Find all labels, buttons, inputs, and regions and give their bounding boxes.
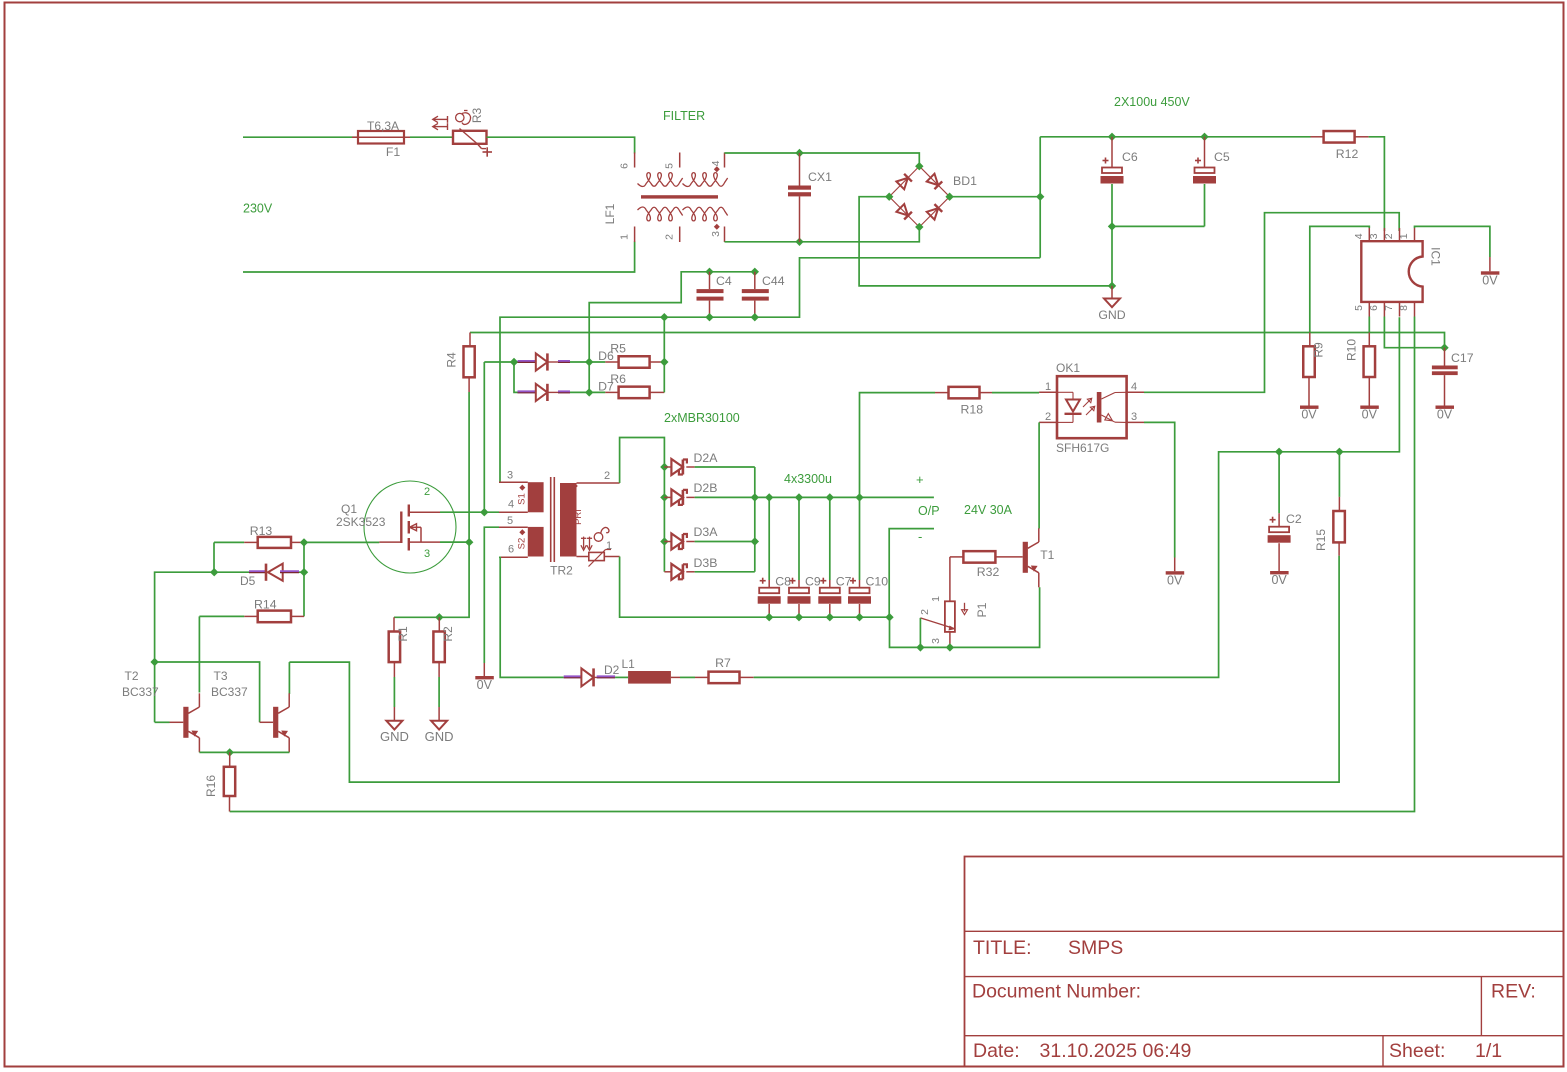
- resistor R15: [1314, 448, 1345, 556]
- capacitor C7: [818, 493, 851, 621]
- transistor T3 BC337: [211, 662, 289, 752]
- wire OK1 pin 3 to 0V: [1144, 422, 1175, 557]
- net label plus: [916, 472, 924, 487]
- capacitor C5: [1193, 133, 1230, 227]
- svg-text:R16: R16: [204, 775, 218, 797]
- wire T2 T3 emitters to R16: [199, 748, 289, 756]
- wire BD1 minus rail down to C4 C44 bottom rail: [500, 258, 1040, 482]
- wire D6 D7 anode net from drain node: [484, 362, 514, 512]
- svg-text:6: 6: [508, 544, 514, 556]
- wire BD1 plus to top DC rail: [950, 137, 1045, 258]
- svg-text:D5: D5: [240, 574, 256, 588]
- wire R14 left to T2 collector: [198, 616, 200, 692]
- resistor R4: [445, 333, 475, 393]
- resistor R9: [1300, 333, 1326, 422]
- svg-text:R1: R1: [396, 626, 410, 642]
- wire OK1 pin 2 to T1 collector: [1038, 422, 1040, 528]
- wire LF1 pin 4 to CX1 top and BD1 top: [725, 153, 920, 166]
- svg-text:3: 3: [1368, 233, 1380, 239]
- output minus stub wire: [889, 529, 934, 618]
- svg-text:T2: T2: [125, 669, 139, 683]
- svg-text:L1: L1: [622, 657, 636, 671]
- svg-text:6: 6: [1368, 305, 1380, 311]
- wire C5 bottom to C6 bottom: [1108, 222, 1205, 230]
- svg-text:R10: R10: [1345, 339, 1359, 361]
- capacitor C6: [1101, 133, 1138, 227]
- net label O/P: [918, 504, 940, 518]
- net label FILTER: [663, 109, 705, 123]
- svg-text:1: 1: [1045, 381, 1051, 393]
- wire R1 R2 top junction: [394, 613, 444, 621]
- diode D2B: [660, 481, 755, 505]
- supply 0V at IC1 pin 1: [1481, 257, 1500, 288]
- wire LF1 pin 3 to CX1 bottom and BD1 bottom: [725, 227, 920, 242]
- svg-text:R9: R9: [1312, 342, 1326, 358]
- svg-text:S2: S2: [517, 538, 528, 550]
- svg-text:OK1: OK1: [1056, 361, 1080, 375]
- svg-text:R3: R3: [470, 108, 484, 124]
- diode D3A: [660, 525, 755, 550]
- svg-text:R14: R14: [254, 598, 277, 612]
- svg-text:-: -: [918, 529, 922, 544]
- svg-text:4: 4: [1131, 381, 1137, 393]
- wire BD1 minus to GND node: [859, 197, 1112, 286]
- wire TR2 pin 2 to output diode anodes: [620, 438, 665, 572]
- output plus rail: [755, 496, 934, 498]
- wire TR2 pin 1 to output minus rail: [620, 557, 890, 618]
- svg-text:F1: F1: [386, 145, 401, 159]
- svg-text:C7: C7: [836, 575, 852, 589]
- svg-text:0V: 0V: [1167, 573, 1183, 587]
- svg-text:D2A: D2A: [694, 451, 719, 465]
- transistor T1: [1023, 528, 1055, 587]
- capacitor C17: [1432, 344, 1474, 422]
- svg-text:0V: 0V: [1482, 274, 1498, 288]
- svg-text:R4: R4: [445, 352, 459, 368]
- svg-text:2SK3523: 2SK3523: [336, 515, 386, 529]
- wire IC1 pin 4 to R9: [1310, 226, 1370, 332]
- svg-text:2: 2: [664, 234, 676, 240]
- svg-text:4x3300u: 4x3300u: [784, 472, 832, 486]
- svg-text:R6: R6: [610, 372, 626, 386]
- svg-text:3: 3: [424, 548, 430, 560]
- supply 0V under TR2 pin5: [475, 663, 494, 692]
- wire from F1 to R3: [410, 136, 453, 138]
- svg-text:O/P: O/P: [918, 504, 940, 518]
- svg-text:TR2: TR2: [550, 564, 573, 578]
- svg-text:2: 2: [1045, 411, 1051, 423]
- capacitor C10: [848, 493, 888, 621]
- wire Q1 source to R4 vertical: [440, 541, 469, 543]
- svg-text:2: 2: [1383, 233, 1395, 239]
- svg-text:2: 2: [424, 486, 430, 498]
- svg-text:+: +: [916, 472, 924, 487]
- wire output diode cathodes junction: [751, 467, 759, 572]
- svg-text:D3B: D3B: [694, 556, 718, 570]
- svg-text:Q1: Q1: [341, 502, 357, 516]
- svg-text:C5: C5: [1214, 150, 1230, 164]
- svg-text:GND: GND: [380, 729, 409, 744]
- svg-text:R12: R12: [1336, 147, 1359, 161]
- svg-text:3: 3: [930, 638, 942, 644]
- svg-text:D2B: D2B: [694, 481, 718, 495]
- wire R13 right to D5 right to R14 right: [300, 538, 308, 616]
- wire R12 to IC1 pin 3: [1369, 137, 1385, 231]
- svg-text:5: 5: [664, 163, 676, 169]
- resistor R32: [950, 551, 1023, 579]
- resistor R2: [433, 617, 455, 721]
- supply 0V at OK1 pin3: [1166, 558, 1185, 588]
- svg-text:0V: 0V: [1437, 408, 1453, 422]
- wire OK1 pin 4 to IC1 pin 2: [1144, 213, 1399, 393]
- capacitor C2: [1268, 448, 1302, 588]
- wire output minus rail junction down: [885, 587, 1039, 647]
- wire mains N bottom from left edge to LF1 pin 1: [243, 242, 635, 273]
- svg-text:R5: R5: [610, 342, 626, 356]
- svg-text:5: 5: [507, 515, 513, 527]
- svg-text:C4: C4: [716, 274, 732, 288]
- fuse F1 T6,3A: [352, 119, 410, 159]
- wire D5 left to base net: [150, 572, 214, 722]
- svg-text:PRI: PRI: [573, 509, 584, 525]
- svg-text:R13: R13: [250, 524, 273, 538]
- diode D3B: [664, 556, 754, 580]
- title block Document Number: [972, 981, 1536, 1003]
- resistor R1: [389, 617, 410, 721]
- svg-text:4: 4: [508, 499, 514, 511]
- svg-text:R32: R32: [977, 565, 1000, 579]
- optocoupler OK1 SFH617G: [1039, 361, 1144, 455]
- title block frame: [965, 857, 1564, 1067]
- net label 2X100u 450V: [1114, 95, 1190, 109]
- svg-text:Sheet:: Sheet:: [1389, 1040, 1445, 1062]
- svg-text:BC337: BC337: [211, 685, 248, 699]
- net label minus: [918, 529, 922, 544]
- svg-text:0V: 0V: [1301, 408, 1317, 422]
- svg-text:T6,3A: T6,3A: [367, 119, 399, 133]
- svg-text:0V: 0V: [477, 678, 493, 692]
- resistor R5: [585, 342, 664, 368]
- resistor R13: [214, 524, 304, 548]
- resistor R7: [680, 656, 754, 683]
- capacitor C4: [697, 268, 732, 318]
- thermistor on TR2 pin 1: [589, 550, 620, 567]
- svg-text:R18: R18: [961, 403, 984, 417]
- svg-text:Document Number:: Document Number:: [972, 981, 1141, 1003]
- net label 230V: [243, 202, 273, 216]
- svg-text:FILTER: FILTER: [663, 109, 705, 123]
- svg-text:24V 30A: 24V 30A: [964, 503, 1013, 517]
- svg-text:REV:: REV:: [1491, 981, 1536, 1003]
- svg-text:GND: GND: [1098, 308, 1125, 322]
- varistor R3: [433, 108, 492, 157]
- capacitor C44: [742, 268, 785, 318]
- wire P1 wiper to bottom rail: [916, 618, 954, 652]
- wire IC1 pin 8 to R16 bottom: [230, 317, 1415, 812]
- svg-text:C10: C10: [866, 575, 889, 589]
- net label 4x3300u: [784, 472, 832, 486]
- wire IC1 pin 5 to R10: [1368, 317, 1370, 333]
- svg-text:C2: C2: [1286, 512, 1302, 526]
- potentiometer P1: [919, 557, 989, 648]
- resistor R6: [585, 372, 664, 398]
- ground GND under R2: [425, 721, 454, 744]
- svg-text:CX1: CX1: [808, 170, 832, 184]
- wire R7 to C2 R15 IC1 pin7 net: [754, 317, 1400, 677]
- wire R15 bottom to T3 collector rail: [289, 556, 1339, 782]
- svg-text:LF1: LF1: [603, 203, 617, 224]
- svg-text:SMPS: SMPS: [1068, 937, 1123, 959]
- transistor Q1 2SK3523: [336, 481, 456, 573]
- long wire R4 top to C17 and IC1 pin 6 net: [470, 333, 1445, 348]
- common-mode choke LF1: [603, 153, 728, 243]
- svg-text:C44: C44: [762, 274, 785, 288]
- svg-text:4: 4: [710, 160, 722, 166]
- svg-text:T1: T1: [1040, 548, 1054, 562]
- wire C6 bottom to GND junction: [1108, 226, 1116, 290]
- svg-text:Date:: Date:: [973, 1040, 1020, 1062]
- svg-text:R2: R2: [441, 626, 455, 642]
- net label 2xMBR30100: [664, 411, 740, 425]
- title block TITLE SMPS: [973, 937, 1123, 959]
- resistor R14: [199, 598, 304, 623]
- wire R5 R6 right side to bulk rail: [660, 313, 668, 392]
- ground GND under R1: [380, 721, 409, 744]
- diode D2: [564, 663, 620, 686]
- wire Q1 drain to TR2 pin 4: [440, 508, 499, 516]
- svg-text:R7: R7: [715, 656, 731, 670]
- svg-text:BD1: BD1: [953, 174, 977, 188]
- svg-text:1: 1: [619, 234, 631, 240]
- capacitor C8: [758, 493, 791, 621]
- svg-text:S1: S1: [517, 493, 528, 505]
- svg-text:2: 2: [919, 609, 931, 615]
- svg-text:R15: R15: [1314, 529, 1328, 551]
- svg-text:31.10.2025 06:49: 31.10.2025 06:49: [1040, 1040, 1192, 1062]
- diode D6: [510, 349, 614, 371]
- svg-text:6: 6: [619, 163, 631, 169]
- svg-text:C17: C17: [1451, 351, 1474, 365]
- svg-text:5: 5: [1353, 305, 1365, 311]
- svg-text:D3A: D3A: [694, 525, 719, 539]
- svg-text:C8: C8: [775, 575, 791, 589]
- svg-text:1: 1: [930, 596, 942, 602]
- ground GND primary: [1098, 286, 1125, 322]
- svg-text:GND: GND: [425, 729, 454, 744]
- bridge rectifier BD1: [885, 162, 977, 231]
- svg-text:2xMBR30100: 2xMBR30100: [664, 411, 740, 425]
- wire mains L from left edge to fuse F1: [243, 136, 358, 138]
- svg-text:IC1: IC1: [1429, 247, 1443, 266]
- transistor T2 BC337: [122, 669, 199, 752]
- net label 24V 30A: [964, 503, 1013, 517]
- svg-text:0V: 0V: [1362, 408, 1378, 422]
- svg-text:C9: C9: [805, 575, 821, 589]
- svg-text:2X100u 450V: 2X100u 450V: [1114, 95, 1190, 109]
- svg-text:P1: P1: [975, 602, 989, 617]
- svg-text:3: 3: [507, 470, 513, 482]
- transformer TR2: [499, 470, 620, 578]
- capacitor CX1: [788, 149, 832, 246]
- wire IC1 pin 1 to 0V: [1415, 226, 1490, 257]
- svg-text:230V: 230V: [243, 202, 273, 216]
- svg-text:4: 4: [1353, 233, 1365, 239]
- resistor R18: [935, 387, 1039, 417]
- resistor R16: [204, 752, 235, 811]
- wire from R3 to LF1 pin 6: [487, 137, 635, 153]
- inductor L1: [615, 657, 680, 684]
- wire TR2 pin 5 to 0V: [484, 527, 499, 663]
- svg-text:D2: D2: [604, 663, 620, 677]
- svg-text:2: 2: [604, 470, 610, 482]
- diode D2A: [660, 451, 755, 475]
- svg-text:7: 7: [1383, 305, 1395, 311]
- IC IC1: [1353, 228, 1443, 317]
- wire base net to T3 base: [155, 662, 260, 722]
- wire R13 left down to D5: [213, 542, 215, 572]
- wire gate net R13 to Q1: [304, 541, 379, 543]
- svg-text:T3: T3: [214, 669, 228, 683]
- resistor R12: [1311, 131, 1369, 161]
- svg-text:SFH617G: SFH617G: [1056, 441, 1109, 455]
- svg-text:0V: 0V: [1271, 573, 1287, 587]
- svg-text:8: 8: [1398, 305, 1410, 311]
- wire R4 bottom to source junction and R1 R2 tops: [439, 392, 473, 617]
- svg-text:1: 1: [606, 540, 612, 552]
- wire C4 C44 top rail from snubber: [589, 272, 755, 393]
- svg-text:BC337: BC337: [122, 685, 159, 699]
- top DC plus rail to C6 C5 R12: [1040, 136, 1310, 138]
- svg-text:1/1: 1/1: [1475, 1040, 1502, 1062]
- wire TR2 pin 6 to D2: [499, 557, 564, 677]
- svg-text:TITLE:: TITLE:: [973, 937, 1032, 959]
- diode D7: [514, 362, 614, 401]
- capacitor C9: [788, 493, 821, 621]
- junction dots C4 C44 bottom rail: [705, 313, 759, 321]
- diode D5: [210, 564, 308, 588]
- wire C10 top to R18: [860, 393, 936, 498]
- svg-text:3: 3: [1131, 411, 1137, 423]
- wire IC1 pin 6 to C17: [1384, 317, 1444, 348]
- resistor R10: [1345, 333, 1379, 422]
- svg-text:1: 1: [1398, 233, 1410, 239]
- title block Date and Sheet: [973, 1040, 1502, 1062]
- svg-text:C6: C6: [1122, 150, 1138, 164]
- svg-text:3: 3: [710, 231, 722, 237]
